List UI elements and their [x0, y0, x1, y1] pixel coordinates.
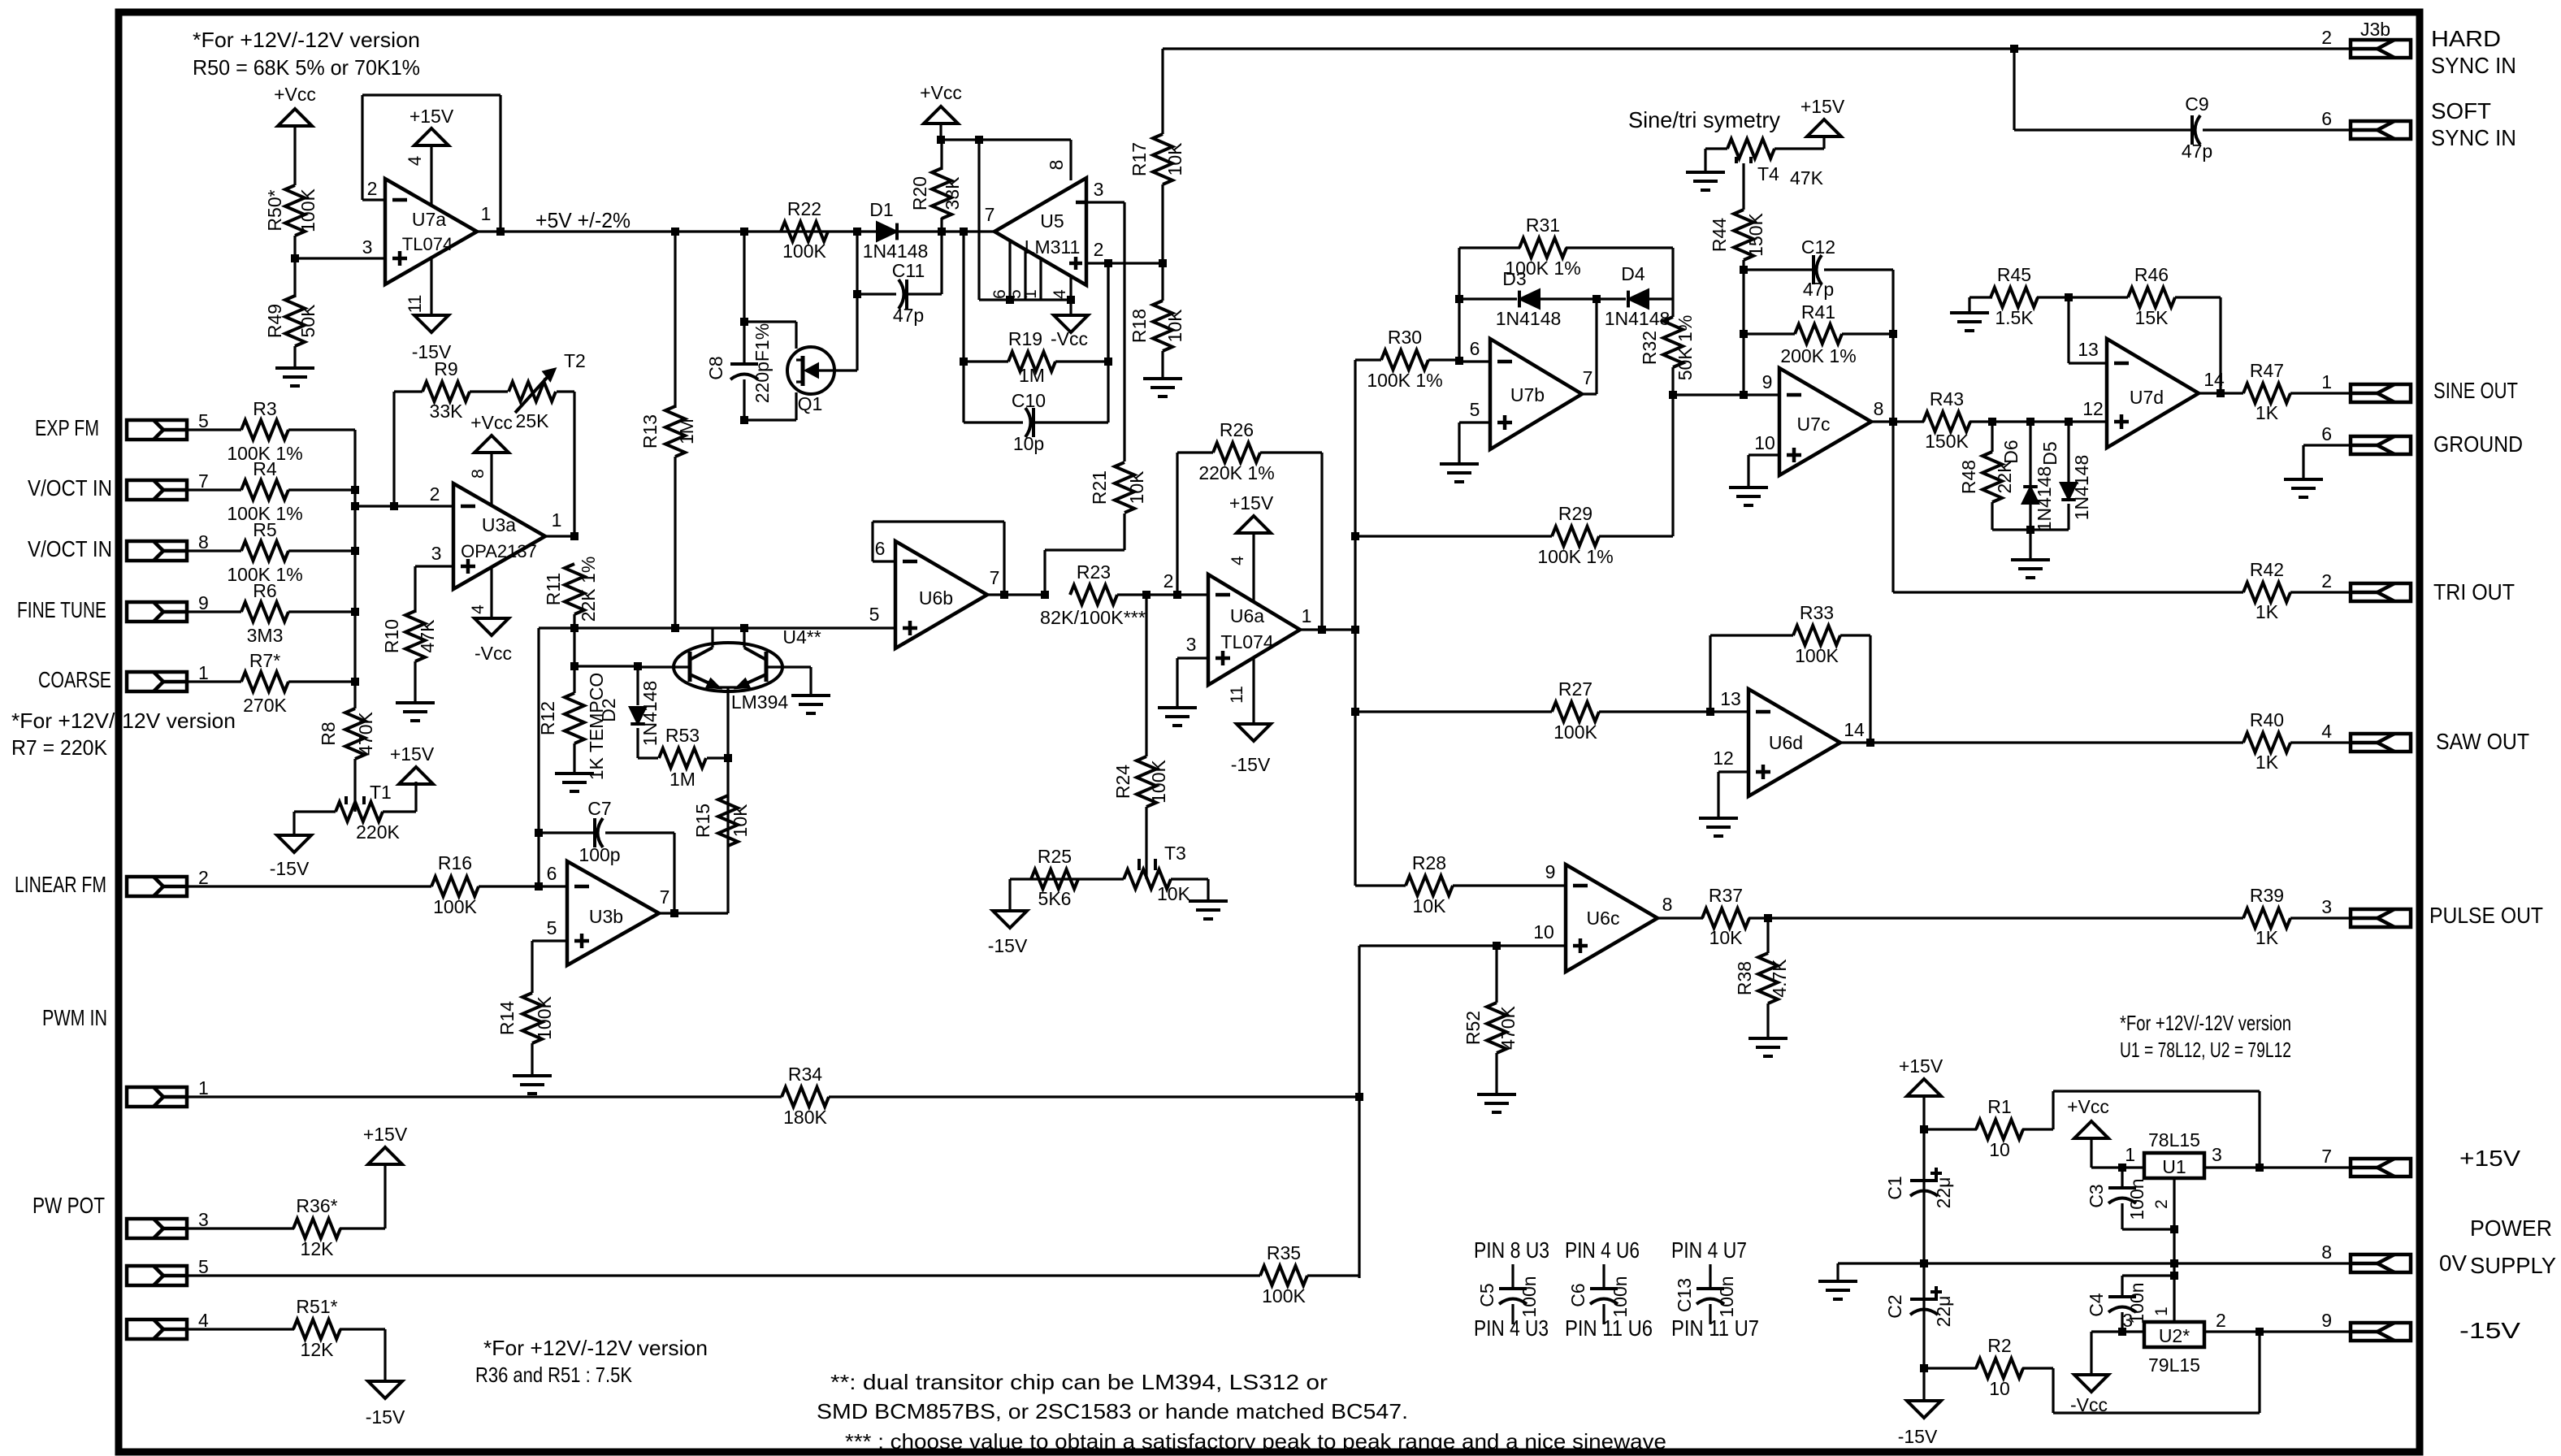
- svg-text:*For +12V/-12V version: *For +12V/-12V version: [11, 708, 236, 733]
- svg-text:J3b: J3b: [2360, 19, 2390, 40]
- svg-text:TL074: TL074: [1220, 631, 1273, 652]
- svg-text:R42: R42: [2250, 559, 2284, 580]
- svg-text:R7*: R7*: [249, 650, 280, 671]
- svg-text:-Vcc: -Vcc: [1051, 328, 1088, 349]
- svg-text:50K 1%: 50K 1%: [1675, 315, 1696, 381]
- svg-text:U1 = 78L12, U2 = 79L12: U1 = 78L12, U2 = 79L12: [2120, 1038, 2291, 1062]
- svg-text:U2*: U2*: [2159, 1325, 2190, 1346]
- svg-text:*For +12V/-12V version: *For +12V/-12V version: [2120, 1011, 2291, 1035]
- svg-text:47K: 47K: [417, 619, 438, 653]
- svg-text:100K: 100K: [1795, 645, 1839, 666]
- svg-text:R28: R28: [1412, 852, 1446, 873]
- svg-text:R40: R40: [2250, 709, 2284, 730]
- svg-text:4: 4: [405, 156, 425, 166]
- svg-text:3: 3: [2321, 896, 2332, 917]
- svg-text:1: 1: [1021, 289, 1040, 299]
- svg-text:C4: C4: [2086, 1293, 2107, 1317]
- svg-text:3: 3: [2212, 1144, 2222, 1165]
- svg-text:R43: R43: [1930, 388, 1964, 409]
- svg-text:14: 14: [2203, 369, 2225, 390]
- svg-text:LINEAR FM: LINEAR FM: [15, 872, 106, 897]
- svg-text:10K: 10K: [730, 804, 751, 838]
- svg-text:150K: 150K: [1745, 212, 1766, 256]
- svg-text:9: 9: [198, 592, 209, 613]
- svg-text:1N4148: 1N4148: [1496, 308, 1562, 329]
- svg-text:T3: T3: [1164, 843, 1186, 864]
- svg-text:+15V: +15V: [1800, 96, 1845, 117]
- svg-text:4: 4: [2321, 721, 2332, 742]
- svg-text:22K: 22K: [1994, 460, 2015, 494]
- svg-text:270K: 270K: [243, 695, 287, 716]
- svg-text:Q1: Q1: [798, 393, 823, 414]
- svg-text:R9: R9: [434, 358, 457, 379]
- svg-text:+Vcc: +Vcc: [470, 412, 513, 433]
- svg-text:8: 8: [469, 469, 487, 479]
- svg-text:R30: R30: [1388, 327, 1422, 348]
- svg-text:SYNC IN: SYNC IN: [2431, 125, 2516, 150]
- svg-text:PIN 11 U6: PIN 11 U6: [1565, 1315, 1653, 1341]
- svg-text:R41: R41: [1801, 301, 1835, 323]
- svg-text:1N4148: 1N4148: [863, 240, 929, 262]
- svg-text:12: 12: [2082, 398, 2104, 419]
- svg-text:78L15: 78L15: [2148, 1129, 2200, 1150]
- svg-text:11: 11: [405, 295, 425, 314]
- svg-text:SINE OUT: SINE OUT: [2433, 378, 2518, 403]
- svg-text:4.7K: 4.7K: [1769, 959, 1790, 998]
- svg-text:R29: R29: [1558, 503, 1592, 524]
- svg-text:-15V: -15V: [1231, 754, 1271, 775]
- svg-text:10K: 10K: [1157, 883, 1191, 904]
- svg-text:U7c: U7c: [1797, 414, 1831, 435]
- svg-text:R15: R15: [692, 804, 713, 838]
- svg-text:15K: 15K: [2135, 307, 2169, 328]
- svg-text:13: 13: [1720, 688, 1741, 709]
- svg-text:R23: R23: [1077, 561, 1111, 583]
- svg-text:U6b: U6b: [919, 587, 953, 609]
- svg-text:C1: C1: [1884, 1176, 1905, 1199]
- svg-text:100K: 100K: [782, 240, 826, 262]
- svg-text:V/OCT IN: V/OCT IN: [28, 475, 112, 500]
- svg-text:R2: R2: [1987, 1335, 2011, 1356]
- svg-text:5: 5: [1470, 399, 1480, 420]
- svg-text:5: 5: [198, 1256, 209, 1277]
- svg-text:1K: 1K: [2255, 402, 2279, 423]
- svg-text:5: 5: [547, 917, 557, 938]
- svg-text:220pF1%: 220pF1%: [752, 323, 773, 403]
- svg-text:100n: 100n: [1610, 1276, 1631, 1317]
- svg-text:6: 6: [875, 538, 886, 559]
- svg-text:C8: C8: [705, 356, 726, 379]
- svg-text:100K: 100K: [433, 896, 477, 917]
- svg-text:2: 2: [1094, 239, 1104, 260]
- svg-text:R31: R31: [1526, 214, 1560, 236]
- svg-text:OPA2137: OPA2137: [461, 541, 537, 561]
- svg-text:Sine/tri symetry: Sine/tri symetry: [1628, 107, 1780, 132]
- svg-text:10K: 10K: [1164, 309, 1185, 343]
- svg-text:U7a: U7a: [412, 209, 446, 230]
- svg-text:47p: 47p: [893, 305, 924, 326]
- svg-text:1N4148: 1N4148: [2034, 466, 2055, 532]
- svg-text:-15V: -15V: [1898, 1426, 1938, 1447]
- svg-text:SUPPLY: SUPPLY: [2470, 1253, 2556, 1278]
- svg-text:10K: 10K: [1709, 927, 1744, 948]
- svg-text:PWM IN: PWM IN: [42, 1005, 107, 1030]
- svg-text:U6a: U6a: [1230, 605, 1264, 626]
- svg-text:T2: T2: [564, 350, 586, 371]
- svg-text:U3b: U3b: [589, 906, 623, 927]
- svg-text:R44: R44: [1709, 218, 1730, 252]
- svg-text:U6c: U6c: [1587, 908, 1620, 929]
- svg-text:C3: C3: [2086, 1184, 2107, 1207]
- svg-text:3: 3: [2122, 1310, 2133, 1331]
- svg-text:-Vcc: -Vcc: [474, 643, 512, 664]
- svg-text:R36*: R36*: [296, 1195, 337, 1216]
- svg-text:14: 14: [1844, 719, 1865, 740]
- svg-text:SYNC IN: SYNC IN: [2431, 53, 2516, 78]
- svg-text:2: 2: [198, 867, 209, 888]
- svg-text:82K/100K***: 82K/100K***: [1040, 607, 1146, 628]
- svg-text:7: 7: [2321, 1146, 2332, 1167]
- svg-text:C7: C7: [587, 798, 611, 819]
- svg-text:+Vcc: +Vcc: [274, 84, 316, 105]
- svg-text:12K: 12K: [301, 1238, 335, 1259]
- svg-text:5: 5: [869, 604, 880, 625]
- svg-text:3: 3: [431, 543, 442, 564]
- svg-text:COARSE: COARSE: [38, 667, 111, 692]
- svg-text:R5: R5: [253, 519, 276, 540]
- svg-text:R21: R21: [1089, 470, 1110, 505]
- svg-text:U1: U1: [2162, 1156, 2186, 1177]
- svg-text:R27: R27: [1558, 678, 1592, 700]
- svg-text:+15V: +15V: [363, 1124, 408, 1145]
- svg-text:T1: T1: [370, 782, 392, 803]
- svg-text:5: 5: [198, 410, 209, 431]
- svg-text:100n: 100n: [1716, 1276, 1737, 1317]
- svg-text:1: 1: [1302, 605, 1312, 626]
- svg-text:R13: R13: [639, 414, 661, 448]
- svg-text:100n: 100n: [2126, 1178, 2147, 1220]
- svg-text:U4**: U4**: [782, 626, 821, 648]
- svg-text:+15V: +15V: [1229, 492, 1274, 513]
- svg-text:3: 3: [198, 1209, 209, 1230]
- svg-text:150K: 150K: [1925, 431, 1969, 452]
- svg-text:U7d: U7d: [2130, 387, 2164, 408]
- svg-text:R53: R53: [665, 725, 700, 746]
- svg-text:1.5K: 1.5K: [1995, 307, 2034, 328]
- svg-text:R45: R45: [1997, 264, 2031, 285]
- svg-text:180K: 180K: [783, 1107, 827, 1128]
- svg-text:R20: R20: [909, 176, 930, 210]
- svg-text:1N4148: 1N4148: [639, 681, 661, 747]
- svg-text:C13: C13: [1674, 1278, 1695, 1312]
- svg-text:TL074: TL074: [402, 234, 453, 254]
- svg-text:R7 = 220K: R7 = 220K: [11, 735, 108, 760]
- svg-text:13: 13: [2078, 339, 2099, 360]
- svg-text:200K 1%: 200K 1%: [1780, 345, 1856, 366]
- svg-text:470K: 470K: [1497, 1005, 1519, 1049]
- svg-text:33K: 33K: [942, 176, 963, 210]
- svg-text:R49: R49: [264, 304, 285, 338]
- svg-text:3M3: 3M3: [247, 625, 284, 646]
- svg-text:TRI OUT: TRI OUT: [2433, 579, 2515, 604]
- svg-text:C9: C9: [2185, 93, 2208, 115]
- svg-text:1: 1: [481, 203, 492, 224]
- svg-text:-15V: -15V: [366, 1406, 405, 1428]
- svg-text:C5: C5: [1476, 1283, 1497, 1306]
- svg-text:R4: R4: [253, 458, 277, 479]
- svg-text:8: 8: [2321, 1241, 2332, 1263]
- svg-text:1: 1: [2125, 1144, 2135, 1165]
- svg-text:100K 1%: 100K 1%: [1367, 370, 1442, 391]
- svg-text:2: 2: [1163, 570, 1174, 591]
- svg-text:SMD BCM857BS, or 2SC1583 or ha: SMD BCM857BS, or 2SC1583 or hande matche…: [817, 1399, 1408, 1423]
- svg-text:R12: R12: [537, 701, 558, 735]
- svg-text:LM394: LM394: [731, 691, 789, 713]
- svg-text:1K: 1K: [2255, 601, 2279, 622]
- svg-text:D2: D2: [598, 698, 619, 721]
- svg-text:12: 12: [1713, 747, 1734, 769]
- svg-text:R17: R17: [1129, 142, 1150, 176]
- svg-text:*For +12V/-12V version: *For +12V/-12V version: [193, 28, 420, 52]
- svg-text:7: 7: [660, 886, 670, 908]
- svg-text:R25: R25: [1038, 846, 1072, 867]
- svg-text:8: 8: [1046, 160, 1067, 171]
- svg-text:R39: R39: [2250, 885, 2284, 906]
- svg-text:2: 2: [2216, 1310, 2226, 1331]
- svg-text:PIN 4 U6: PIN 4 U6: [1565, 1237, 1640, 1263]
- svg-text:3: 3: [362, 236, 373, 258]
- svg-text:R24: R24: [1112, 765, 1133, 799]
- svg-text:50K: 50K: [297, 304, 318, 338]
- svg-text:100K: 100K: [1148, 759, 1169, 803]
- svg-text:8: 8: [198, 531, 209, 552]
- svg-text:PIN 4 U3: PIN 4 U3: [1474, 1315, 1549, 1341]
- svg-text:R47: R47: [2250, 360, 2284, 381]
- svg-text:-15V: -15V: [270, 858, 310, 879]
- svg-text:1: 1: [198, 662, 209, 683]
- svg-text:D1: D1: [869, 199, 893, 220]
- svg-text:R51*: R51*: [296, 1296, 337, 1317]
- svg-text:10K: 10K: [1126, 470, 1147, 505]
- svg-text:GROUND: GROUND: [2433, 431, 2523, 457]
- svg-text:PULSE OUT: PULSE OUT: [2429, 903, 2543, 928]
- svg-text:1: 1: [2152, 1306, 2171, 1316]
- svg-text:4: 4: [198, 1310, 209, 1331]
- svg-text:R3: R3: [253, 398, 276, 419]
- svg-text:C6: C6: [1567, 1283, 1588, 1306]
- svg-text:+Vcc: +Vcc: [920, 82, 962, 103]
- svg-text:79L15: 79L15: [2148, 1354, 2200, 1376]
- svg-text:D3: D3: [1502, 268, 1526, 289]
- svg-text:10K: 10K: [1413, 895, 1447, 916]
- svg-text:1N4148: 1N4148: [2071, 455, 2092, 521]
- svg-text:1M: 1M: [676, 418, 697, 444]
- svg-text:+15V: +15V: [390, 743, 435, 765]
- svg-text:9: 9: [1762, 371, 1773, 392]
- svg-text:EXP FM: EXP FM: [35, 415, 99, 440]
- svg-text:4: 4: [1051, 289, 1069, 299]
- svg-text:C2: C2: [1884, 1294, 1905, 1318]
- svg-text:R33: R33: [1800, 602, 1834, 623]
- svg-text:SAW OUT: SAW OUT: [2436, 729, 2529, 754]
- svg-text:100K: 100K: [297, 188, 318, 232]
- svg-text:R22: R22: [787, 198, 821, 219]
- svg-text:R50 = 68K 5% or 70K1%: R50 = 68K 5% or 70K1%: [193, 55, 420, 80]
- svg-text:C11: C11: [892, 260, 925, 281]
- svg-text:8: 8: [1874, 398, 1884, 419]
- svg-text:4: 4: [1228, 556, 1247, 565]
- svg-text:22μ: 22μ: [1933, 1296, 1954, 1328]
- svg-text:1M: 1M: [1019, 365, 1045, 386]
- svg-text:*** : choose value to obtain: *** : choose value to obtain a satisfact…: [845, 1429, 1666, 1454]
- svg-text:7: 7: [990, 567, 1000, 588]
- svg-text:+15V: +15V: [2459, 1146, 2520, 1171]
- svg-text:2: 2: [430, 483, 440, 505]
- svg-text:6: 6: [2321, 423, 2332, 444]
- svg-text:1K: 1K: [2255, 927, 2279, 948]
- svg-text:3: 3: [1186, 634, 1197, 655]
- svg-text:**: dual transitor chip can be: **: dual transitor chip can be LM394, LS…: [830, 1370, 1328, 1394]
- svg-text:7: 7: [985, 204, 995, 225]
- svg-text:9: 9: [1545, 861, 1556, 882]
- svg-text:R16: R16: [438, 852, 472, 873]
- svg-text:R50*: R50*: [264, 189, 285, 231]
- svg-text:22μ: 22μ: [1933, 1177, 1954, 1209]
- svg-text:47p: 47p: [2182, 141, 2212, 162]
- svg-text:U5: U5: [1040, 210, 1064, 232]
- svg-text:+Vcc: +Vcc: [2067, 1096, 2109, 1117]
- svg-text:7: 7: [198, 470, 209, 492]
- svg-text:R38: R38: [1734, 961, 1755, 995]
- svg-text:R1: R1: [1987, 1096, 2011, 1117]
- svg-text:100n: 100n: [1519, 1276, 1540, 1317]
- svg-text:PW POT: PW POT: [32, 1193, 105, 1218]
- svg-text:1K TEMPCO: 1K TEMPCO: [586, 673, 607, 781]
- svg-text:25K: 25K: [516, 410, 550, 431]
- svg-text:2: 2: [2321, 570, 2332, 591]
- svg-text:FINE TUNE: FINE TUNE: [17, 597, 106, 622]
- svg-text:1N4148: 1N4148: [1605, 308, 1670, 329]
- svg-text:LM311: LM311: [1025, 236, 1081, 258]
- svg-text:SOFT: SOFT: [2431, 98, 2491, 123]
- svg-text:PIN 11 U7: PIN 11 U7: [1671, 1315, 1759, 1341]
- svg-text:-15V: -15V: [988, 935, 1028, 956]
- svg-text:9: 9: [2321, 1310, 2332, 1331]
- svg-text:6: 6: [547, 863, 557, 884]
- svg-text:R46: R46: [2134, 264, 2169, 285]
- svg-text:2: 2: [2321, 27, 2332, 48]
- svg-text:4: 4: [469, 604, 487, 614]
- svg-text:U7b: U7b: [1510, 384, 1545, 405]
- svg-text:PIN 4 U7: PIN 4 U7: [1671, 1237, 1747, 1263]
- svg-text:-15V: -15V: [2459, 1318, 2520, 1343]
- svg-text:1: 1: [552, 509, 562, 531]
- svg-text:10K: 10K: [1164, 142, 1185, 176]
- svg-text:D4: D4: [1621, 263, 1645, 284]
- svg-text:1: 1: [2321, 371, 2332, 392]
- svg-text:R34: R34: [788, 1064, 822, 1085]
- svg-text:100K: 100K: [1262, 1285, 1306, 1306]
- svg-text:R10: R10: [381, 619, 402, 653]
- svg-text:C12: C12: [1801, 236, 1835, 258]
- svg-text:HARD: HARD: [2431, 26, 2501, 51]
- svg-text:*For +12V/-12V version: *For +12V/-12V version: [483, 1336, 708, 1360]
- svg-text:100p: 100p: [578, 844, 620, 865]
- svg-text:100K: 100K: [1553, 721, 1597, 743]
- svg-text:+5V +/-2%: +5V +/-2%: [535, 208, 630, 232]
- svg-text:1: 1: [198, 1077, 209, 1098]
- svg-text:1M: 1M: [669, 769, 695, 790]
- svg-text:220K 1%: 220K 1%: [1198, 462, 1274, 483]
- svg-text:10p: 10p: [1013, 433, 1044, 454]
- svg-text:R32: R32: [1639, 331, 1660, 365]
- svg-text:R14: R14: [496, 1001, 518, 1035]
- svg-text:10: 10: [1989, 1139, 2010, 1160]
- svg-text:47p: 47p: [1803, 279, 1834, 300]
- svg-text:C10: C10: [1012, 390, 1046, 411]
- svg-text:R6: R6: [253, 580, 276, 601]
- svg-text:2: 2: [2152, 1199, 2171, 1209]
- svg-text:R37: R37: [1709, 885, 1743, 906]
- svg-text:10: 10: [1989, 1378, 2010, 1399]
- svg-text:3: 3: [1094, 179, 1104, 200]
- svg-text:U3a: U3a: [482, 514, 516, 535]
- svg-text:V/OCT IN: V/OCT IN: [28, 536, 112, 561]
- svg-text:D6: D6: [2000, 440, 2021, 463]
- svg-text:U6d: U6d: [1769, 732, 1803, 753]
- svg-text:12K: 12K: [301, 1339, 335, 1360]
- svg-text:R48: R48: [1958, 460, 1979, 494]
- svg-text:6: 6: [1470, 338, 1480, 359]
- svg-text:1K: 1K: [2255, 752, 2279, 773]
- svg-text:6: 6: [2321, 108, 2332, 129]
- svg-text:R35: R35: [1267, 1242, 1301, 1263]
- svg-text:PIN 8 U3: PIN 8 U3: [1474, 1237, 1549, 1263]
- svg-text:47K: 47K: [1790, 167, 1824, 188]
- svg-text:33K: 33K: [430, 401, 464, 422]
- svg-text:POWER: POWER: [2470, 1215, 2552, 1241]
- svg-text:0V: 0V: [2439, 1250, 2467, 1276]
- svg-text:22K 1%: 22K 1%: [578, 557, 599, 622]
- svg-text:D5: D5: [2039, 441, 2060, 465]
- svg-text:R52: R52: [1462, 1011, 1484, 1045]
- svg-text:+15V: +15V: [1899, 1055, 1943, 1077]
- svg-text:2: 2: [367, 178, 378, 199]
- svg-text:100K: 100K: [534, 995, 555, 1039]
- svg-text:10: 10: [1754, 432, 1775, 453]
- svg-text:R8: R8: [318, 721, 339, 745]
- svg-text:+15V: +15V: [409, 106, 454, 127]
- svg-text:11: 11: [1228, 686, 1246, 704]
- svg-text:470K: 470K: [355, 711, 376, 755]
- svg-text:R11: R11: [543, 573, 564, 606]
- svg-text:8: 8: [1662, 894, 1673, 915]
- svg-text:T4: T4: [1757, 163, 1779, 184]
- svg-text:10: 10: [1533, 921, 1554, 942]
- svg-text:R19: R19: [1008, 328, 1042, 349]
- svg-text:7: 7: [1583, 367, 1593, 388]
- svg-text:R36 and R51 : 7.5K: R36 and R51 : 7.5K: [475, 1363, 633, 1387]
- svg-text:5K6: 5K6: [1038, 888, 1072, 909]
- svg-text:R18: R18: [1129, 309, 1150, 343]
- svg-text:220K: 220K: [356, 821, 400, 843]
- svg-text:R26: R26: [1220, 419, 1254, 440]
- svg-text:100K 1%: 100K 1%: [1537, 546, 1613, 567]
